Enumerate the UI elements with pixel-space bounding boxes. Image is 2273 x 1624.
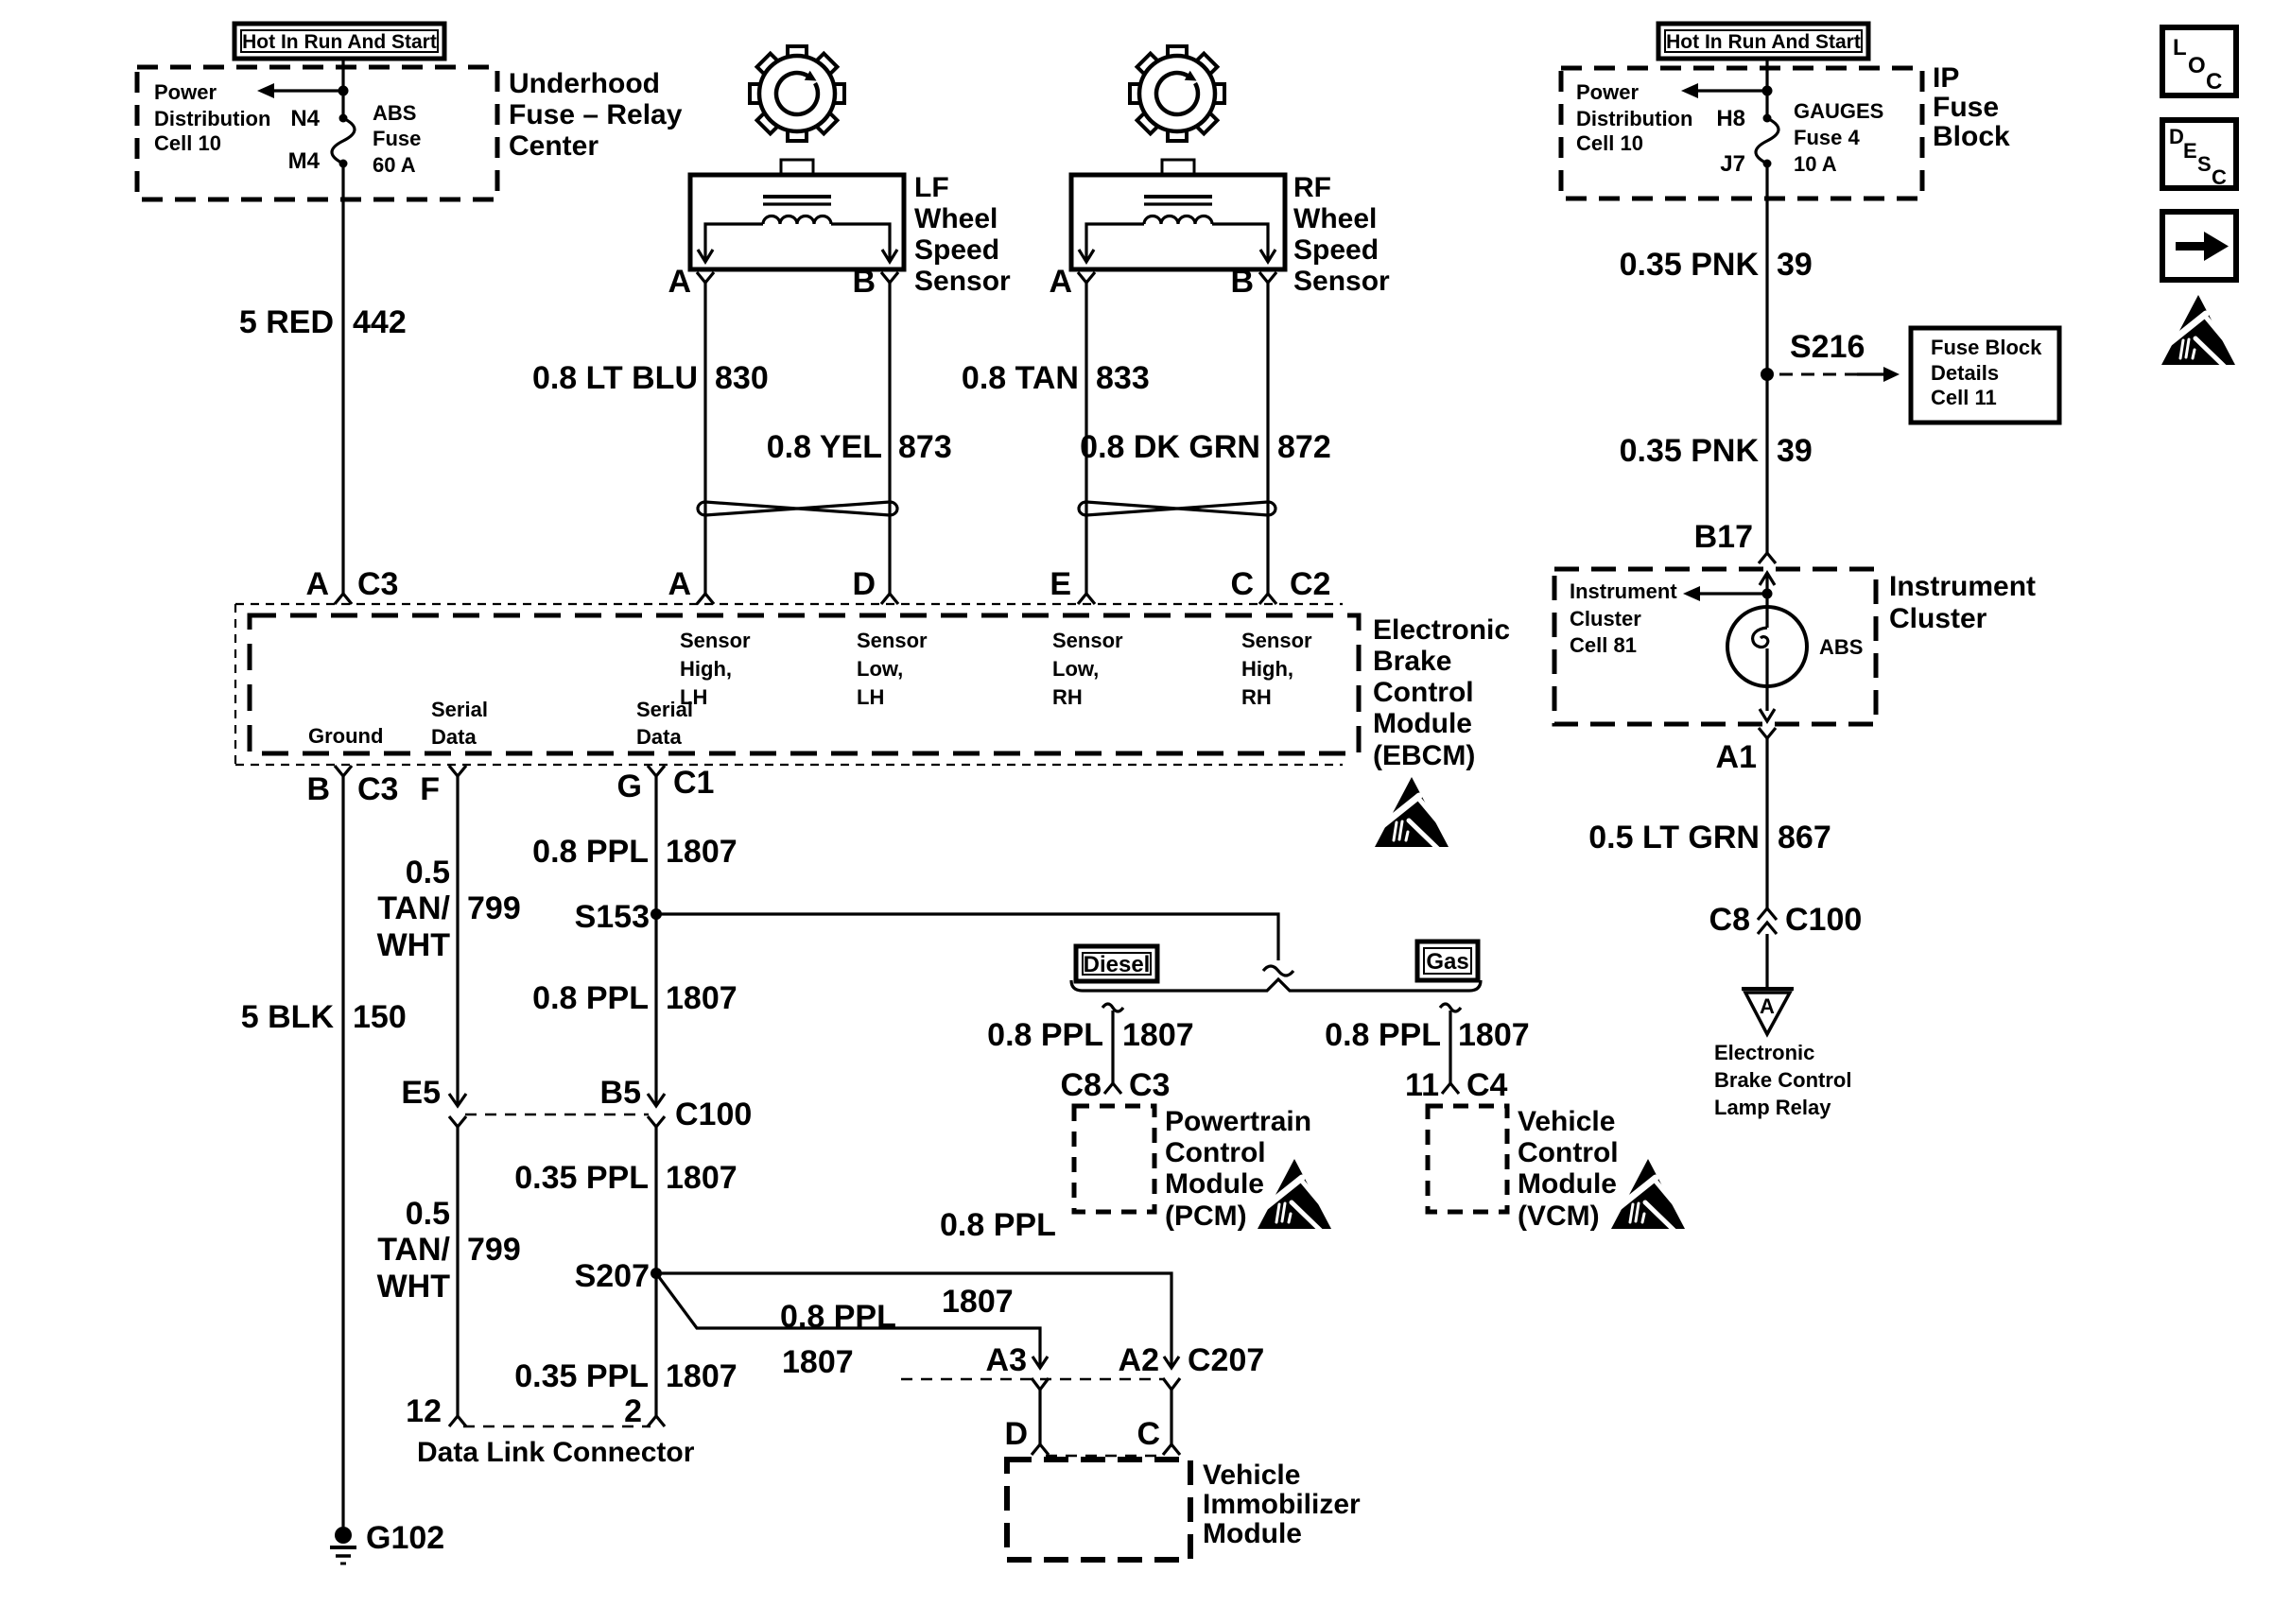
component box: Powertrain Control Module (dashed)	[1074, 1106, 1154, 1212]
ESD symbol (EBCM)	[1375, 777, 1449, 849]
options brace (Diesel / Gas)	[1071, 979, 1481, 991]
svg-text:Hot In Run And Start: Hot In Run And Start	[1666, 31, 1861, 53]
svg-text:Fuse: Fuse	[1933, 92, 1999, 123]
EBCM connector outline (thin dashed)	[235, 604, 1343, 765]
svg-text:TAN/: TAN/	[377, 890, 450, 926]
svg-text:150: 150	[353, 999, 407, 1035]
twisted pair symbol (LF)	[698, 502, 897, 515]
label: 5 RED 442	[239, 304, 407, 340]
svg-text:C1: C1	[673, 765, 714, 801]
connector E5 at C100	[401, 1075, 466, 1127]
svg-text:Fuse – Relay: Fuse – Relay	[509, 99, 683, 130]
svg-text:S153: S153	[575, 899, 650, 935]
pin A C3 at EBCM top	[305, 566, 398, 604]
svg-text:799: 799	[467, 890, 521, 926]
svg-text:Hot In Run And Start: Hot In Run And Start	[242, 31, 437, 53]
wire: S207 branch 1 to A2 C207	[656, 1273, 1171, 1368]
sensor core (RF)	[1144, 197, 1212, 204]
svg-text:S207: S207	[575, 1258, 650, 1294]
wire: 0.5 LT GRN 867	[1765, 738, 1768, 908]
break symbol (tilde) on selector stem	[1263, 966, 1293, 976]
svg-text:Cluster: Cluster	[1889, 603, 1987, 634]
svg-text:Ground: Ground	[308, 724, 383, 748]
svg-text:Serial: Serial	[636, 698, 693, 721]
wire: 0.35 PNK 39 down to S216 and B17	[1765, 164, 1768, 553]
label: 0.8 LT BLU 830	[532, 360, 769, 396]
svg-text:Low,: Low,	[1052, 657, 1099, 681]
svg-text:D: D	[852, 566, 876, 602]
svg-text:G: G	[617, 769, 642, 804]
wire: S207 branch 2 to A3	[656, 1273, 1040, 1368]
label: IP Fuse Block	[1933, 62, 2010, 152]
svg-text:0.8 PPL: 0.8 PPL	[1325, 1017, 1441, 1053]
svg-text:0.35 PPL: 0.35 PPL	[514, 1160, 649, 1196]
splice S153	[575, 899, 662, 935]
svg-text:0.8 PPL: 0.8 PPL	[532, 834, 649, 870]
svg-text:C: C	[2212, 165, 2227, 189]
component box: Vehicle Control Module (dashed)	[1428, 1106, 1507, 1212]
label: Vehicle Control Module (VCM)	[1518, 1106, 1619, 1232]
svg-text:C207: C207	[1188, 1342, 1264, 1378]
label: ABS Fuse 60 A	[373, 101, 421, 177]
svg-text:1807: 1807	[1122, 1017, 1194, 1053]
label: Serial Data (pin F)	[431, 698, 488, 749]
label box: Fuse Block Details Cell 11	[1911, 328, 2059, 423]
svg-text:D: D	[1004, 1416, 1028, 1452]
wire: PPL 1807 from pin G to S153	[654, 776, 657, 914]
svg-text:Data Link Connector: Data Link Connector	[417, 1437, 695, 1468]
sensor coil (LF)	[763, 216, 831, 225]
svg-text:12: 12	[406, 1393, 442, 1429]
svg-text:(PCM): (PCM)	[1165, 1201, 1247, 1232]
component box: Vehicle Immobilizer Module (dashed)	[1007, 1460, 1190, 1560]
wire: sensor B lead down to EBCM (RF)	[1266, 283, 1269, 594]
svg-text:Sensor: Sensor	[1052, 629, 1123, 652]
svg-text:(VCM): (VCM)	[1518, 1201, 1600, 1232]
svg-text:(EBCM): (EBCM)	[1373, 740, 1475, 771]
svg-text:5 BLK: 5 BLK	[241, 999, 335, 1035]
label: 0.8 YEL 873	[767, 429, 952, 465]
fuse: ABS Fuse 60 A	[332, 114, 355, 168]
wire: sensor A lead down to EBCM (RF)	[1084, 283, 1087, 594]
label: 0.8 TAN 833	[962, 360, 1150, 396]
svg-text:Gas: Gas	[1426, 949, 1468, 975]
svg-text:A3: A3	[986, 1342, 1027, 1378]
label: Sensor Low LH	[857, 629, 928, 709]
svg-text:Electronic: Electronic	[1714, 1041, 1814, 1064]
svg-text:G102: G102	[366, 1520, 444, 1556]
wire: diesel drop to PCM	[1102, 1004, 1123, 1083]
svg-text:1807: 1807	[782, 1344, 854, 1380]
pin 12 terminal (DLC)	[406, 1393, 466, 1429]
label: 0.8 PPL 1807 (gas)	[1325, 1017, 1529, 1053]
svg-text:LF: LF	[914, 172, 949, 203]
svg-text:S216: S216	[1790, 329, 1865, 365]
svg-text:799: 799	[467, 1232, 521, 1268]
svg-text:A1: A1	[1716, 739, 1757, 775]
svg-text:Brake: Brake	[1373, 646, 1451, 677]
svg-text:0.8 PPL: 0.8 PPL	[532, 980, 649, 1016]
svg-text:Brake Control: Brake Control	[1714, 1068, 1851, 1092]
svg-text:1807: 1807	[666, 980, 737, 1016]
splice S207	[575, 1258, 662, 1294]
ESD symbol (PCM)	[1258, 1159, 1331, 1231]
label: RF Wheel Speed Sensor	[1293, 172, 1390, 297]
pin A2 connector C207	[1119, 1342, 1265, 1390]
svg-text:Sensor: Sensor	[680, 629, 751, 652]
svg-text:B: B	[1230, 264, 1254, 300]
wire: arrow to Power Distribution (left)	[257, 83, 343, 98]
svg-text:872: 872	[1277, 429, 1331, 465]
pin A terminal (EBCM top, LF high)	[668, 566, 714, 604]
svg-text:H8: H8	[1716, 106, 1745, 131]
pin B17 terminal (instrument cluster)	[1694, 519, 1776, 563]
RF wheel speed sensor body	[1071, 160, 1285, 269]
tone ring gear (RF)	[1110, 26, 1243, 160]
label: LF Wheel Speed Sensor	[914, 172, 1011, 297]
svg-text:RH: RH	[1241, 685, 1272, 709]
pin D terminal (immobilizer)	[1004, 1416, 1049, 1455]
svg-text:B17: B17	[1694, 519, 1753, 555]
pin A3 connector C207	[986, 1342, 1049, 1390]
label: Electronic Brake Control Module (EBCM)	[1373, 614, 1510, 771]
svg-text:Sensor: Sensor	[857, 629, 928, 652]
svg-text:Vehicle: Vehicle	[1203, 1460, 1300, 1491]
wire: PPL 1807 from S153 to B5	[654, 914, 657, 1106]
pin C8 C3 terminal (PCM)	[1061, 1067, 1171, 1103]
label: 0.35 PPL 1807 (fourth)	[514, 1358, 737, 1394]
svg-text:Electronic: Electronic	[1373, 614, 1510, 646]
svg-text:Sensor: Sensor	[1241, 629, 1312, 652]
label: GAUGES Fuse 4 10 A	[1794, 99, 1883, 176]
svg-text:1807: 1807	[666, 834, 737, 870]
component box: Underhood Fuse-Relay Center (dashed)	[137, 67, 497, 199]
wire: A3 to pin D of immobilizer	[1038, 1390, 1041, 1444]
label: 0.5 LT GRN 867	[1588, 820, 1831, 855]
svg-text:C8: C8	[1061, 1067, 1102, 1103]
label: Vehicle Immobilizer Module	[1203, 1460, 1361, 1549]
svg-text:Sensor: Sensor	[914, 266, 1011, 297]
label: 0.8 PPL 1807 (second)	[532, 980, 737, 1016]
svg-text:B5: B5	[600, 1075, 641, 1111]
svg-text:Fuse Block: Fuse Block	[1931, 336, 2042, 359]
svg-text:S: S	[2197, 152, 2212, 176]
svg-text:A: A	[668, 264, 691, 300]
svg-text:1807: 1807	[942, 1284, 1014, 1320]
label: 0.8 DK GRN 872	[1080, 429, 1331, 465]
svg-text:442: 442	[353, 304, 407, 340]
fuse: GAUGES Fuse 4 10 A	[1756, 114, 1778, 168]
svg-text:Powertrain: Powertrain	[1165, 1106, 1311, 1137]
svg-text:F: F	[420, 771, 440, 807]
pin B C3 terminal (EBCM bottom, ground)	[306, 766, 398, 807]
svg-text:Wheel: Wheel	[1293, 203, 1377, 234]
svg-text:D: D	[2169, 125, 2184, 148]
svg-text:C100: C100	[1785, 902, 1862, 938]
svg-text:Module: Module	[1518, 1168, 1617, 1200]
component box: Electronic Brake Control Module EBCM (thick dashed)	[250, 615, 1359, 753]
svg-text:39: 39	[1777, 433, 1813, 469]
wire: gas drop to VCM	[1440, 1004, 1461, 1083]
svg-text:J7: J7	[1720, 151, 1745, 177]
svg-text:L: L	[2173, 35, 2187, 60]
wire: serial data 799 upper segment (pin F to E5)	[456, 776, 459, 1106]
sidebar arrow box	[2162, 212, 2236, 280]
pin D terminal (EBCM top)	[852, 566, 898, 604]
ESD symbol (VCM)	[1611, 1159, 1685, 1231]
svg-text:Data: Data	[636, 725, 682, 749]
label: 0.35 PNK 39 (upper)	[1620, 247, 1813, 283]
wire: A2 to pin C of immobilizer	[1170, 1390, 1172, 1444]
svg-text:39: 39	[1777, 247, 1813, 283]
svg-text:WHT: WHT	[377, 1269, 451, 1304]
svg-text:Fuse 4: Fuse 4	[1794, 126, 1860, 149]
wire: S153 branch to Diesel/Gas selector	[656, 914, 1278, 960]
pin G C1 terminal (EBCM bottom)	[617, 765, 715, 804]
svg-text:873: 873	[898, 429, 952, 465]
sensor coil (RF)	[1144, 216, 1212, 225]
svg-text:WHT: WHT	[377, 927, 451, 963]
svg-text:11: 11	[1405, 1067, 1439, 1103]
svg-text:0.8 TAN: 0.8 TAN	[962, 360, 1079, 396]
node: junction to power distribution	[338, 86, 349, 96]
svg-text:GAUGES: GAUGES	[1794, 99, 1883, 123]
svg-text:Control: Control	[1373, 677, 1474, 708]
wire: sensor B lead down to EBCM (LF)	[888, 283, 891, 594]
svg-text:5 RED: 5 RED	[239, 304, 334, 340]
pin A1 terminal (cluster bottom)	[1716, 728, 1776, 775]
svg-text:E: E	[2183, 139, 2197, 163]
label: 5 BLK 150	[241, 999, 407, 1035]
wire: dashed C100 connector line	[465, 1114, 649, 1116]
wire: dashed D-C connector line	[1046, 1455, 1164, 1458]
label: 0.8 PPL 1807 (diesel)	[987, 1017, 1193, 1053]
splice S216	[1761, 329, 1865, 381]
label: Instrument Cluster	[1889, 571, 2036, 634]
label: Powertrain Control Module (PCM)	[1165, 1106, 1311, 1232]
pin F terminal (EBCM bottom)	[420, 766, 466, 807]
svg-text:A2: A2	[1119, 1342, 1159, 1378]
svg-text:0.35 PNK: 0.35 PNK	[1620, 247, 1760, 283]
label: Sensor High RH	[1241, 629, 1312, 709]
label box: Hot In Run And Start (right)	[1658, 24, 1868, 59]
off-page connector triangle A	[1742, 989, 1794, 1034]
svg-text:C: C	[2206, 69, 2222, 95]
wire: serial data 799 lower segment (E5 to DLC pin 12)	[456, 1127, 459, 1416]
node: junction to power distribution (right)	[1762, 86, 1773, 96]
svg-text:RH: RH	[1052, 685, 1083, 709]
pin A terminal (LF)	[668, 264, 714, 300]
svg-text:A: A	[305, 566, 329, 602]
svg-text:Instrument: Instrument	[1570, 579, 1677, 603]
svg-text:Block: Block	[1933, 121, 2010, 152]
pin B terminal (RF)	[1230, 264, 1276, 300]
wire: 0.35 PPL from S207 to DLC pin 2	[654, 1273, 657, 1416]
wire: exit arrow from cluster	[1760, 709, 1775, 721]
svg-text:Serial: Serial	[431, 698, 488, 721]
svg-text:Low,: Low,	[857, 657, 903, 681]
svg-text:C: C	[1230, 566, 1254, 602]
label: Electronic Brake Control Lamp Relay	[1714, 1041, 1851, 1119]
svg-text:C4: C4	[1466, 1067, 1508, 1103]
component box: Instrument Cluster (dashed)	[1554, 569, 1876, 724]
sidebar DESC box	[2162, 120, 2236, 189]
svg-text:A: A	[1049, 264, 1072, 300]
svg-text:0.35 PPL: 0.35 PPL	[514, 1358, 649, 1394]
sensor core (LF)	[763, 197, 831, 204]
svg-text:Vehicle: Vehicle	[1518, 1106, 1615, 1137]
svg-text:Distribution: Distribution	[154, 107, 270, 130]
svg-text:M4: M4	[288, 148, 321, 174]
svg-text:A: A	[1760, 994, 1775, 1018]
pin A terminal (RF)	[1049, 264, 1095, 300]
label box: Diesel	[1076, 946, 1157, 981]
wire: 5 RED 442 down to EBCM pin A	[341, 164, 344, 594]
svg-text:Instrument: Instrument	[1889, 571, 2036, 602]
label: Power Distribution Cell 10 (right box)	[1576, 80, 1692, 155]
svg-text:0.5: 0.5	[406, 1196, 450, 1232]
label: Sensor Low RH	[1052, 629, 1123, 709]
svg-text:N4: N4	[290, 106, 320, 131]
svg-text:TAN/: TAN/	[377, 1232, 450, 1268]
svg-text:C8: C8	[1709, 902, 1750, 938]
svg-text:IP: IP	[1933, 62, 1959, 94]
wire: dashed splice reference with arrow	[1779, 367, 1900, 382]
svg-text:LH: LH	[857, 685, 884, 709]
svg-text:0.8 PPL: 0.8 PPL	[940, 1207, 1056, 1243]
label: Underhood Fuse - Relay Center	[509, 68, 683, 162]
svg-text:0.8 PPL: 0.8 PPL	[780, 1299, 896, 1335]
connector C8 C100 (inline)	[1709, 902, 1863, 938]
svg-text:Control: Control	[1518, 1137, 1619, 1168]
svg-text:High,: High,	[680, 657, 732, 681]
svg-text:ABS: ABS	[1819, 635, 1863, 659]
svg-text:Module: Module	[1373, 708, 1472, 739]
label: Instrument Cluster Cell 81	[1570, 579, 1677, 657]
component box: IP Fuse Block (dashed)	[1561, 68, 1922, 199]
label: 0.35 PNK 39 (lower)	[1620, 433, 1813, 469]
pin B terminal (LF)	[852, 264, 898, 300]
svg-text:Underhood: Underhood	[509, 68, 660, 99]
pin E terminal (EBCM top)	[1050, 566, 1095, 604]
svg-text:0.5 LT GRN: 0.5 LT GRN	[1588, 820, 1760, 855]
svg-text:RF: RF	[1293, 172, 1331, 203]
twisted pair symbol (RF)	[1079, 502, 1275, 515]
wire: 5 BLK 150 ground wire down to G102	[341, 776, 344, 1527]
label: 0.5 TAN/WHT 799 (lower)	[377, 1196, 521, 1304]
wire: dashed DLC connector line	[463, 1425, 651, 1428]
svg-text:O: O	[2188, 53, 2206, 78]
wire: coil leads inside box (RF)	[1079, 224, 1275, 262]
label box: Hot In Run And Start (left)	[234, 24, 444, 59]
wire: entry arrow into cluster	[1760, 573, 1775, 594]
svg-text:Cell 11: Cell 11	[1931, 386, 1997, 409]
sidebar LOC box	[2162, 27, 2236, 95]
svg-text:Speed: Speed	[914, 234, 999, 266]
svg-text:0.5: 0.5	[406, 855, 450, 890]
svg-text:Fuse: Fuse	[373, 127, 421, 150]
label: Sensor High LH	[680, 629, 751, 709]
label box: Gas	[1417, 942, 1478, 980]
svg-text:0.35 PNK: 0.35 PNK	[1620, 433, 1760, 469]
svg-text:Power: Power	[154, 80, 217, 104]
svg-text:Speed: Speed	[1293, 234, 1379, 266]
svg-text:Control: Control	[1165, 1137, 1266, 1168]
wire: arrow to Instrument Cluster Cell 81	[1683, 586, 1767, 601]
svg-text:C100: C100	[675, 1097, 752, 1132]
svg-text:867: 867	[1778, 820, 1831, 855]
svg-text:Wheel: Wheel	[914, 203, 998, 234]
svg-text:0.8 PPL: 0.8 PPL	[987, 1017, 1103, 1053]
svg-text:Distribution: Distribution	[1576, 107, 1692, 130]
svg-text:1807: 1807	[666, 1358, 737, 1394]
ESD symbol (sidebar)	[2161, 295, 2235, 367]
svg-text:Details: Details	[1931, 361, 1999, 385]
wire: arrow to Power Distribution (right)	[1681, 83, 1767, 98]
svg-text:B: B	[852, 264, 876, 300]
pin 11 C4 terminal (VCM)	[1405, 1067, 1508, 1103]
wire: 0.35 PPL from B5 to S207	[654, 1127, 657, 1273]
label: 0.8 PPL 1807 (first)	[532, 834, 737, 870]
svg-text:830: 830	[715, 360, 769, 396]
lamp: ABS indicator	[1727, 594, 1863, 711]
svg-text:60 A: 60 A	[373, 153, 416, 177]
pin C terminal (immobilizer)	[1136, 1416, 1180, 1455]
label: Power Distribution Cell 10 (left box)	[154, 80, 270, 155]
svg-text:Cluster: Cluster	[1570, 607, 1641, 631]
svg-text:C2: C2	[1290, 566, 1330, 602]
svg-text:0.8 DK GRN: 0.8 DK GRN	[1080, 429, 1260, 465]
svg-text:C3: C3	[1129, 1067, 1170, 1103]
svg-text:Cell 10: Cell 10	[154, 131, 221, 155]
label: Serial Data (pin G)	[636, 698, 693, 749]
svg-text:Power: Power	[1576, 80, 1639, 104]
svg-text:Cell 81: Cell 81	[1570, 633, 1637, 657]
svg-text:C3: C3	[357, 566, 398, 602]
svg-text:Data: Data	[431, 725, 477, 749]
svg-text:833: 833	[1096, 360, 1150, 396]
wire: coil leads inside box (LF)	[698, 224, 897, 262]
svg-text:C: C	[1136, 1416, 1160, 1452]
svg-text:2: 2	[624, 1393, 642, 1429]
svg-text:1807: 1807	[1458, 1017, 1530, 1053]
svg-text:0.8 YEL: 0.8 YEL	[767, 429, 882, 465]
wire: dashed C207 connector line	[901, 1378, 1164, 1381]
svg-text:0.8 LT BLU: 0.8 LT BLU	[532, 360, 698, 396]
svg-text:C3: C3	[357, 771, 398, 807]
wire: feed from Hot box into IP fuse block	[1765, 59, 1768, 118]
wire: sensor A lead down to EBCM (LF)	[703, 283, 706, 594]
node: junction in cluster	[1762, 589, 1773, 599]
svg-text:Sensor: Sensor	[1293, 266, 1390, 297]
wire: feed from Hot box into fuse box	[341, 59, 344, 118]
LF wheel speed sensor body	[690, 160, 904, 269]
svg-text:Cell 10: Cell 10	[1576, 131, 1643, 155]
svg-text:Module: Module	[1203, 1518, 1302, 1549]
svg-text:High,: High,	[1241, 657, 1293, 681]
svg-text:Lamp Relay: Lamp Relay	[1714, 1096, 1831, 1119]
pin 2 terminal (DLC)	[624, 1393, 665, 1429]
svg-text:E5: E5	[401, 1075, 441, 1111]
svg-text:10 A: 10 A	[1794, 152, 1837, 176]
tone ring gear (LF)	[730, 26, 863, 160]
label: 0.5 TAN/WHT 799 (upper)	[377, 855, 521, 963]
pin C C2 terminal (EBCM top)	[1230, 566, 1330, 604]
svg-text:E: E	[1050, 566, 1071, 602]
svg-text:Module: Module	[1165, 1168, 1264, 1200]
svg-text:Immobilizer: Immobilizer	[1203, 1489, 1361, 1520]
svg-text:A: A	[668, 566, 691, 602]
